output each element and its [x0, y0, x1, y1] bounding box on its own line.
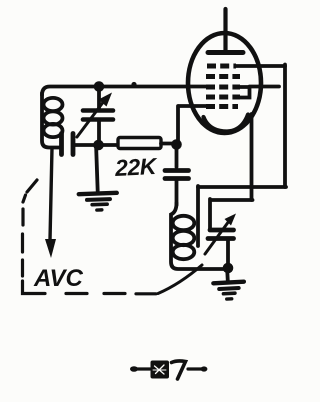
- tube U1 envelope: [188, 33, 261, 133]
- grid bracket rows3-4: [240, 87, 279, 98]
- dashed gang link: rising curve: [158, 265, 202, 294]
- ground G2: [213, 267, 245, 300]
- plate lead: [223, 9, 227, 50]
- small solder tick on top wire: [131, 82, 136, 87]
- wire cathode step: [210, 199, 253, 229]
- dashed gang link: corner: [23, 281, 46, 294]
- C2 plates: [165, 168, 189, 173]
- grid row 5: [206, 104, 238, 109]
- R1 right lead: [161, 142, 177, 146]
- wire right vertical: [283, 65, 287, 188]
- cathode arc: [204, 115, 249, 132]
- variable capacitor VC2 plates: [210, 228, 234, 233]
- wire top tank: [42, 87, 206, 96]
- VC2 lower stem: [226, 240, 230, 267]
- coil L2 loops: [173, 216, 195, 230]
- caption zu block: [151, 361, 170, 379]
- wire grid5 stub: [178, 106, 212, 144]
- coil L1 loops: [44, 98, 63, 111]
- ground G1: [77, 144, 117, 210]
- capacitor C2 upper stem: [175, 145, 179, 167]
- cathode lead: [250, 114, 254, 200]
- VC1 arrow: [77, 101, 104, 137]
- VC1 plates: [83, 108, 113, 113]
- grid row 2: [206, 74, 240, 79]
- capacitor C1 (series): [59, 134, 64, 155]
- node A junction dot: [94, 81, 105, 92]
- C2 lower stem: [175, 180, 179, 205]
- node B junction dot: [93, 140, 104, 151]
- wire bottom of right vertical: [198, 185, 286, 189]
- wire C1 to node B: [73, 143, 118, 147]
- coil L1 left side: [42, 93, 59, 148]
- caption right dash: [188, 367, 205, 370]
- dashed gang link: left vertical: [21, 209, 25, 276]
- grid row 1: [207, 64, 236, 69]
- VC1 lower stem: [97, 120, 101, 145]
- grid row 3: [206, 85, 240, 90]
- resistor R1 box: [118, 138, 161, 149]
- variable capacitor VC1 stem: [97, 87, 101, 109]
- AVC arrow: [50, 148, 52, 240]
- coil L2 outline: [171, 203, 227, 269]
- plate bar: [208, 50, 243, 55]
- dashed gang link: bottom horizontal: [66, 292, 156, 295]
- svg-text:AVC: AVC: [33, 265, 84, 292]
- wire A down to coil tap: [196, 186, 200, 246]
- wire grid1 right: [236, 64, 285, 68]
- VC2 arrow: [205, 221, 229, 254]
- node C junction dot: [171, 139, 182, 150]
- node D junction dot: [223, 263, 234, 274]
- caption digit 7: [172, 361, 186, 379]
- grid row 4: [206, 95, 240, 100]
- caption left dash: [130, 366, 138, 372]
- svg-text:22K: 22K: [113, 153, 158, 181]
- dashed gang link: upper diagonal: [23, 180, 37, 202]
